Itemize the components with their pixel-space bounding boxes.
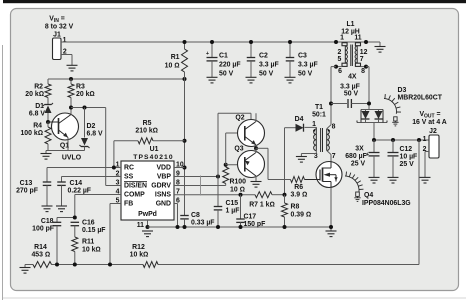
wire base tie xyxy=(226,133,245,165)
svg-text:1: 1 xyxy=(423,136,427,143)
label R6 xyxy=(291,184,308,199)
label D3 xyxy=(398,87,443,102)
svg-text:25 V: 25 V xyxy=(351,161,366,168)
svg-text:453 Ω: 453 Ω xyxy=(31,252,50,259)
wire vertical artifact xyxy=(200,176,202,196)
svg-text:10 kΩ: 10 kΩ xyxy=(130,252,149,259)
wire VIN top rail xyxy=(61,41,380,43)
svg-text:R2: R2 xyxy=(34,84,43,91)
wire J2 pin2 to ground xyxy=(425,152,429,178)
svg-text:50 V: 50 V xyxy=(344,90,359,97)
node L1 pin 6 xyxy=(334,65,338,69)
svg-text:270 pF: 270 pF xyxy=(16,188,38,195)
svg-text:1: 1 xyxy=(63,37,67,44)
wire RC line xyxy=(47,167,121,169)
svg-text:6: 6 xyxy=(338,68,342,75)
resistor R5 xyxy=(114,138,185,144)
node L1 pin 1 on rail xyxy=(334,40,338,44)
node snubber tap xyxy=(329,102,333,106)
wire R5 to RC pin xyxy=(113,141,115,168)
label U1 pin names xyxy=(124,165,171,218)
ground FB rail left end xyxy=(20,265,31,274)
node C8 on ground rail xyxy=(183,225,187,229)
resistor R100 xyxy=(223,165,229,186)
node VOUT at output caps xyxy=(372,138,376,142)
diode D1 zener 6.8V xyxy=(43,103,53,122)
annotation Q4 thermal arc xyxy=(345,172,364,202)
svg-text:50 V: 50 V xyxy=(259,70,274,77)
wire L1 pin6 stub xyxy=(336,66,342,68)
node C18 on FB rail xyxy=(55,263,59,267)
label UVLO xyxy=(62,155,82,162)
svg-text:100 pF: 100 pF xyxy=(32,226,54,233)
ground T1 pin 3 xyxy=(296,157,307,163)
svg-text:U1: U1 xyxy=(150,146,159,153)
transistor Q1 UVLO xyxy=(48,113,79,150)
capacitor C18 xyxy=(53,218,62,265)
svg-text:COMP: COMP xyxy=(124,192,145,199)
capacitor C14 xyxy=(57,177,66,206)
label R100 xyxy=(230,179,247,194)
svg-text:D2: D2 xyxy=(87,123,96,130)
svg-text:4X: 4X xyxy=(348,74,357,81)
label C17 xyxy=(244,214,266,229)
transistor Q3 PNP driver xyxy=(234,146,264,178)
svg-text:C2: C2 xyxy=(259,52,268,59)
node C1 top xyxy=(210,40,214,44)
ground C13 xyxy=(42,206,53,212)
resistor R14 xyxy=(33,262,52,268)
svg-text:R5: R5 xyxy=(143,120,152,127)
label R7 xyxy=(249,202,275,209)
ground C1 xyxy=(207,77,218,83)
wire J1 pin 2 to ground xyxy=(61,55,72,66)
label C16 xyxy=(82,220,106,235)
svg-text:220 µF: 220 µF xyxy=(219,61,241,68)
svg-text:R11: R11 xyxy=(82,239,94,246)
node ISNS C17 xyxy=(239,193,243,197)
label C2 xyxy=(259,52,279,77)
transistor Q4 MOSFET IPP084N06L3G xyxy=(305,162,343,188)
transformer T1 50:1 xyxy=(312,104,336,160)
svg-text:3: 3 xyxy=(314,153,318,160)
capacitor C15 xyxy=(214,177,223,228)
svg-text:50 V: 50 V xyxy=(298,70,313,77)
node VOUT at divider xyxy=(417,138,421,142)
resistor R3 xyxy=(68,79,74,108)
capacitor C3 xyxy=(286,42,295,77)
node RC junction xyxy=(112,166,116,170)
svg-text:GND: GND xyxy=(156,201,171,208)
capacitor output bank 3X 680uF xyxy=(366,140,380,177)
svg-text:R8: R8 xyxy=(291,204,300,211)
svg-text:50 V: 50 V xyxy=(219,70,234,77)
node pin6 on ground rail xyxy=(176,225,180,229)
svg-text:3.9 Ω: 3.9 Ω xyxy=(291,192,308,199)
connector J2 xyxy=(423,128,439,158)
inductor L1 coupled 4X windings xyxy=(338,21,368,81)
svg-text:1: 1 xyxy=(340,35,344,42)
label C13 xyxy=(16,180,38,195)
wire Q3 collector down xyxy=(255,176,257,181)
svg-text:10 kΩ: 10 kΩ xyxy=(82,247,101,254)
node R1 top on VIN rail xyxy=(183,40,187,44)
svg-text:11: 11 xyxy=(354,35,361,42)
resistor R8 xyxy=(282,195,288,227)
annotation D3 thermal arc xyxy=(384,94,401,126)
node R100 base drive xyxy=(224,163,228,167)
node D2 top xyxy=(83,106,87,110)
svg-text:UVLO: UVLO xyxy=(62,155,82,162)
node L1 pin 8 xyxy=(364,65,368,69)
label R2 xyxy=(25,84,44,99)
wire Q2 emitter xyxy=(255,145,257,148)
wire T1 pin3 to ground xyxy=(301,151,316,157)
svg-text:0.15 µF: 0.15 µF xyxy=(82,227,106,234)
capacitor C8 xyxy=(180,216,189,228)
svg-text:R6: R6 xyxy=(294,184,303,191)
wire SS line xyxy=(62,176,122,178)
svg-text:VDD: VDD xyxy=(156,165,171,172)
wire Q1 emitter xyxy=(67,138,69,151)
svg-text:7: 7 xyxy=(360,56,364,63)
wire VOUT rail xyxy=(374,139,430,141)
svg-text:Q4: Q4 xyxy=(364,192,373,199)
ground J2 return xyxy=(420,177,431,183)
svg-text:GDRV: GDRV xyxy=(151,183,171,190)
label C14 xyxy=(68,180,92,195)
ground C3 xyxy=(285,77,296,83)
svg-text:25 V: 25 V xyxy=(400,161,415,168)
node C2 top xyxy=(249,40,253,44)
label C8 xyxy=(191,212,215,227)
capacitor C16 xyxy=(71,222,80,237)
wire L1 pin8 down to D3 xyxy=(366,67,369,110)
wire FB line xyxy=(110,204,121,265)
node snubber right xyxy=(367,102,371,106)
label C15 xyxy=(226,200,240,215)
wire Q3 emitter up xyxy=(255,148,257,152)
svg-text:0.22 µF: 0.22 µF xyxy=(68,188,92,195)
ground Q3 xyxy=(251,182,262,188)
wire L1 pin8 stub xyxy=(361,66,367,68)
svg-text:T1: T1 xyxy=(315,104,323,111)
ground C12 xyxy=(388,177,399,183)
node rail B R1 junction xyxy=(183,77,187,81)
svg-text:J2: J2 xyxy=(429,128,437,135)
wire Q1 collector xyxy=(70,108,72,115)
svg-text:RC: RC xyxy=(124,165,134,172)
diode D2 zener 6.8V xyxy=(80,108,90,151)
wire U1 pin 10 stub xyxy=(174,167,185,169)
wire D3 to VOUT rail xyxy=(373,123,375,141)
ground J1 return xyxy=(67,65,78,71)
resistor R1 xyxy=(182,42,188,79)
node FB on rail xyxy=(108,263,112,267)
svg-text:R12: R12 xyxy=(132,244,145,251)
node C15 on ground rail xyxy=(216,225,220,229)
svg-text:10 Ω: 10 Ω xyxy=(230,187,245,194)
svg-text:210 kΩ: 210 kΩ xyxy=(135,128,158,135)
label output bank xyxy=(345,146,367,168)
svg-text:3X: 3X xyxy=(355,146,364,153)
wire VBP line xyxy=(174,176,218,178)
capacitor C2 xyxy=(247,42,256,77)
svg-text:7: 7 xyxy=(332,153,336,160)
resistor R2 xyxy=(45,79,51,105)
svg-text:10 Ω: 10 Ω xyxy=(165,62,180,69)
svg-text:16 V at 4 A: 16 V at 4 A xyxy=(412,119,447,126)
ground L1 pin 11 rail end xyxy=(375,42,386,52)
svg-text:C12: C12 xyxy=(400,146,413,153)
svg-text:10 µF: 10 µF xyxy=(400,154,418,161)
ground C14 xyxy=(56,206,67,212)
svg-text:6.8 V: 6.8 V xyxy=(29,111,45,118)
wire UVLO emitter rail xyxy=(46,150,85,152)
label C12 xyxy=(400,146,418,168)
wire VBP to Q2 collector xyxy=(218,113,251,176)
svg-text:L1: L1 xyxy=(346,21,354,28)
svg-text:1 µF: 1 µF xyxy=(226,208,240,215)
ground C2 xyxy=(246,77,257,83)
svg-text:0.39 Ω: 0.39 Ω xyxy=(291,212,312,219)
svg-text:DIS/EN: DIS/EN xyxy=(124,183,147,190)
node VDD at pin10 xyxy=(183,166,187,170)
svg-text:C15: C15 xyxy=(226,200,239,207)
capacitor C13 xyxy=(43,168,52,206)
svg-text:FB: FB xyxy=(124,201,133,208)
node L1 pin 11 on rail xyxy=(364,40,368,44)
svg-text:C14: C14 xyxy=(70,180,83,187)
svg-text:3.3 µF: 3.3 µF xyxy=(298,61,318,68)
svg-text:R14: R14 xyxy=(34,244,47,251)
svg-text:C3: C3 xyxy=(298,52,307,59)
ground output bank xyxy=(369,177,380,183)
svg-text:C13: C13 xyxy=(20,180,33,187)
node UVLO collector R3 xyxy=(69,106,73,110)
label D1 xyxy=(29,103,45,118)
label C18 xyxy=(32,218,54,233)
diode D4 xyxy=(295,116,304,132)
wire VDD feed xyxy=(184,79,186,216)
svg-text:Q2: Q2 xyxy=(235,115,244,122)
wire COMP line xyxy=(75,195,121,218)
wire FB divider rail xyxy=(25,264,143,266)
label Q4 xyxy=(362,192,411,207)
svg-text:MBR20L60CT: MBR20L60CT xyxy=(398,95,443,102)
svg-text:5: 5 xyxy=(338,56,342,63)
ground U1 PwPd xyxy=(142,231,153,237)
wire Q4 source to ground rail xyxy=(330,187,332,227)
node driver output xyxy=(254,146,258,150)
capacitor C12 xyxy=(388,140,399,177)
wire Q2 collector xyxy=(255,113,257,121)
resistor R11 xyxy=(72,237,78,265)
label D2 xyxy=(87,123,103,138)
svg-text:D3: D3 xyxy=(398,87,407,94)
wire T1 pin8 lead xyxy=(327,125,331,129)
node pin11 on ground rail xyxy=(146,225,150,229)
svg-text:+: + xyxy=(206,51,209,57)
svg-text:IPP084N06L3G: IPP084N06L3G xyxy=(362,200,411,207)
wire feedback divider from VOUT xyxy=(158,140,419,265)
transistor Q2 NPN driver xyxy=(235,115,264,147)
wire switch node L1 pin6 down to T1 xyxy=(331,67,336,125)
svg-text:VBP: VBP xyxy=(157,174,172,181)
node rail B R3 junction xyxy=(69,77,73,81)
wire T1 pin7 to Q4 drain xyxy=(327,151,331,163)
wire U1 GND pin 6 xyxy=(174,204,178,228)
svg-text:J1: J1 xyxy=(53,31,61,38)
label R3 xyxy=(76,84,95,99)
svg-text:D4: D4 xyxy=(295,116,304,123)
node D1 R4 Q1 base xyxy=(46,120,50,124)
svg-text:R7 1 kΩ: R7 1 kΩ xyxy=(249,202,275,209)
label snubber cap xyxy=(340,84,360,98)
wire T1 pin1 lead xyxy=(305,126,317,128)
svg-text:11: 11 xyxy=(137,222,144,229)
op-amp U1 TPS40210 controller xyxy=(121,146,174,220)
svg-text:R100: R100 xyxy=(230,179,247,186)
capacitor C1 xyxy=(206,42,218,77)
wire IC ground rail xyxy=(148,226,332,228)
svg-text:20 kΩ: 20 kΩ xyxy=(76,91,95,98)
svg-text:ISNS: ISNS xyxy=(155,192,171,199)
connector J1 xyxy=(53,31,67,59)
svg-text:Q3: Q3 xyxy=(234,146,243,153)
node VBP xyxy=(216,175,220,179)
label R11 xyxy=(82,239,101,254)
resistor R7 xyxy=(255,192,285,198)
label R8 xyxy=(291,204,312,219)
svg-text:50:1: 50:1 xyxy=(312,112,326,119)
wire driver output to gate xyxy=(256,148,291,179)
node sense R8 junction xyxy=(283,193,287,197)
node R8 on ground rail xyxy=(283,225,287,229)
label C3 xyxy=(298,52,318,77)
svg-text:R4: R4 xyxy=(33,123,42,130)
wire DIS/EN from UVLO xyxy=(106,108,121,186)
svg-text:SS: SS xyxy=(124,174,134,181)
capacitor snubber 3.3uF xyxy=(331,99,369,108)
wire UVLO output line xyxy=(71,107,106,109)
ground UVLO xyxy=(41,151,52,160)
label R1 xyxy=(165,54,180,69)
svg-text:150 pF: 150 pF xyxy=(244,221,266,228)
svg-text:R1: R1 xyxy=(171,54,180,61)
wire ISNS line xyxy=(174,194,255,196)
svg-text:8: 8 xyxy=(361,68,365,75)
node VOUT label xyxy=(412,111,447,126)
svg-text:6.8 V: 6.8 V xyxy=(87,131,103,138)
node Q4 source on rail xyxy=(329,225,333,229)
label C1 xyxy=(219,52,241,77)
svg-text:R3: R3 xyxy=(76,84,85,91)
node C17 on ground rail xyxy=(239,225,243,229)
svg-text:TPS40210: TPS40210 xyxy=(133,154,173,161)
label R4 xyxy=(20,123,43,138)
svg-text:C17: C17 xyxy=(244,214,257,221)
node VDD at R5 xyxy=(183,139,187,143)
node R11 on FB rail xyxy=(73,263,77,267)
svg-text:PwPd: PwPd xyxy=(138,211,157,218)
label R14 xyxy=(31,244,50,259)
svg-text:C1: C1 xyxy=(219,52,228,59)
resistor R4 xyxy=(45,122,51,151)
svg-text:C8: C8 xyxy=(191,212,200,219)
capacitor C17 xyxy=(236,195,245,227)
wire C18 C16 top rail xyxy=(57,217,75,219)
wire U1 pin 11 xyxy=(147,220,149,227)
svg-text:0.33 µF: 0.33 µF xyxy=(191,220,215,227)
svg-text:8: 8 xyxy=(332,124,336,131)
node COMP comp network xyxy=(73,216,77,220)
node VIN input voltage label xyxy=(45,16,74,31)
node C3 top xyxy=(288,40,292,44)
label R5 xyxy=(135,120,158,135)
svg-text:C18: C18 xyxy=(41,218,54,225)
resistor R6 xyxy=(291,177,305,183)
wire second rail VDD feed xyxy=(48,78,185,80)
svg-text:C16: C16 xyxy=(82,220,95,227)
wire D4 anode from sense node xyxy=(285,128,296,195)
svg-text:8 to 32 V: 8 to 32 V xyxy=(45,24,74,31)
label U1 pin numbers xyxy=(116,162,184,230)
svg-text:3.3 µF: 3.3 µF xyxy=(259,61,279,68)
svg-text:20 kΩ: 20 kΩ xyxy=(25,91,44,98)
svg-text:680 µF: 680 µF xyxy=(345,153,367,160)
svg-text:100 kΩ: 100 kΩ xyxy=(20,130,43,137)
resistor R12 xyxy=(143,262,158,268)
diode D3 dual schottky MBR20L60CT xyxy=(357,110,387,123)
ground rail end xyxy=(326,227,337,237)
svg-text:D1: D1 xyxy=(35,103,44,110)
label R12 xyxy=(130,244,149,259)
node VOUT at C12 xyxy=(391,138,395,142)
wire GDRV line xyxy=(174,185,226,187)
